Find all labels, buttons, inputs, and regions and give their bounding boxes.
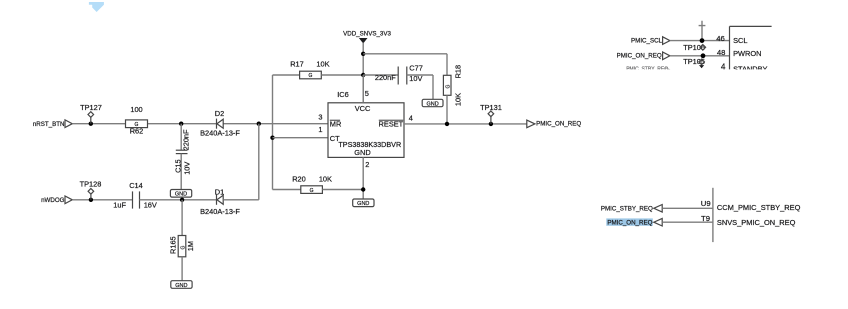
svg-text:GND: GND bbox=[354, 148, 370, 157]
svg-text:GND: GND bbox=[426, 101, 438, 107]
svg-text:GND: GND bbox=[175, 283, 187, 289]
svg-text:1M: 1M bbox=[186, 241, 195, 251]
svg-text:PMIC_STBY_REQ: PMIC_STBY_REQ bbox=[601, 205, 653, 212]
svg-text:GND: GND bbox=[357, 201, 369, 207]
svg-text:IC6: IC6 bbox=[337, 90, 349, 99]
svg-text:5: 5 bbox=[365, 89, 369, 98]
svg-text:CCM_PMIC_STBY_REQ: CCM_PMIC_STBY_REQ bbox=[717, 203, 801, 212]
svg-text:PMIC_ON_REQ: PMIC_ON_REQ bbox=[617, 53, 662, 60]
svg-text:D2: D2 bbox=[215, 109, 224, 118]
svg-text:R17: R17 bbox=[290, 59, 304, 68]
svg-text:SNVS_PMIC_ON_REQ: SNVS_PMIC_ON_REQ bbox=[717, 218, 796, 227]
svg-text:10K: 10K bbox=[316, 59, 329, 68]
svg-text:220nF: 220nF bbox=[375, 73, 396, 82]
svg-text:G: G bbox=[308, 73, 312, 79]
svg-text:16V: 16V bbox=[144, 201, 157, 210]
svg-text:4: 4 bbox=[409, 113, 413, 122]
svg-text:PMIC_SCL: PMIC_SCL bbox=[631, 37, 663, 44]
svg-text:VCC: VCC bbox=[355, 104, 371, 113]
svg-text:PMIC_ON_REQ: PMIC_ON_REQ bbox=[536, 121, 581, 128]
svg-text:2: 2 bbox=[365, 160, 369, 169]
svg-text:46: 46 bbox=[716, 34, 725, 43]
svg-text:G: G bbox=[310, 188, 314, 194]
svg-text:R18: R18 bbox=[454, 65, 463, 79]
svg-text:T9: T9 bbox=[701, 214, 710, 223]
svg-text:TP127: TP127 bbox=[80, 103, 102, 112]
svg-text:R62: R62 bbox=[130, 127, 144, 136]
svg-text:100: 100 bbox=[130, 105, 142, 114]
svg-text:nRST_BTN: nRST_BTN bbox=[33, 121, 65, 128]
svg-text:U9: U9 bbox=[701, 199, 711, 208]
svg-text:10K: 10K bbox=[454, 93, 463, 106]
svg-text:C77: C77 bbox=[409, 64, 423, 73]
svg-text:C15: C15 bbox=[173, 159, 182, 173]
svg-text:48: 48 bbox=[717, 48, 726, 57]
svg-text:1: 1 bbox=[318, 125, 322, 134]
svg-text:10V: 10V bbox=[183, 162, 192, 175]
svg-text:R20: R20 bbox=[292, 175, 306, 184]
svg-text:TP131: TP131 bbox=[480, 103, 502, 112]
svg-text:TP106: TP106 bbox=[683, 43, 705, 52]
svg-text:1uF: 1uF bbox=[113, 201, 126, 210]
svg-text:B240A-13-F: B240A-13-F bbox=[200, 129, 240, 138]
svg-text:220nF: 220nF bbox=[182, 129, 191, 150]
svg-text:B240A-13-F: B240A-13-F bbox=[200, 207, 240, 216]
svg-text:PWRON: PWRON bbox=[733, 49, 761, 58]
svg-text:C14: C14 bbox=[129, 181, 143, 190]
svg-text:PMIC_ON_REQ: PMIC_ON_REQ bbox=[607, 219, 652, 226]
svg-text:3: 3 bbox=[318, 112, 322, 121]
svg-text:D1: D1 bbox=[215, 188, 224, 197]
svg-text:RESET: RESET bbox=[379, 120, 404, 129]
svg-text:G: G bbox=[446, 85, 452, 89]
svg-text:VDD_SNVS_3V3: VDD_SNVS_3V3 bbox=[343, 31, 391, 38]
svg-text:TP128: TP128 bbox=[80, 180, 102, 189]
svg-text:R165: R165 bbox=[168, 236, 177, 254]
svg-text:nWDOG: nWDOG bbox=[41, 197, 65, 204]
svg-text:SCL: SCL bbox=[733, 36, 747, 45]
svg-text:GND: GND bbox=[175, 192, 187, 198]
svg-text:10K: 10K bbox=[319, 175, 332, 184]
svg-text:MR: MR bbox=[330, 120, 342, 129]
